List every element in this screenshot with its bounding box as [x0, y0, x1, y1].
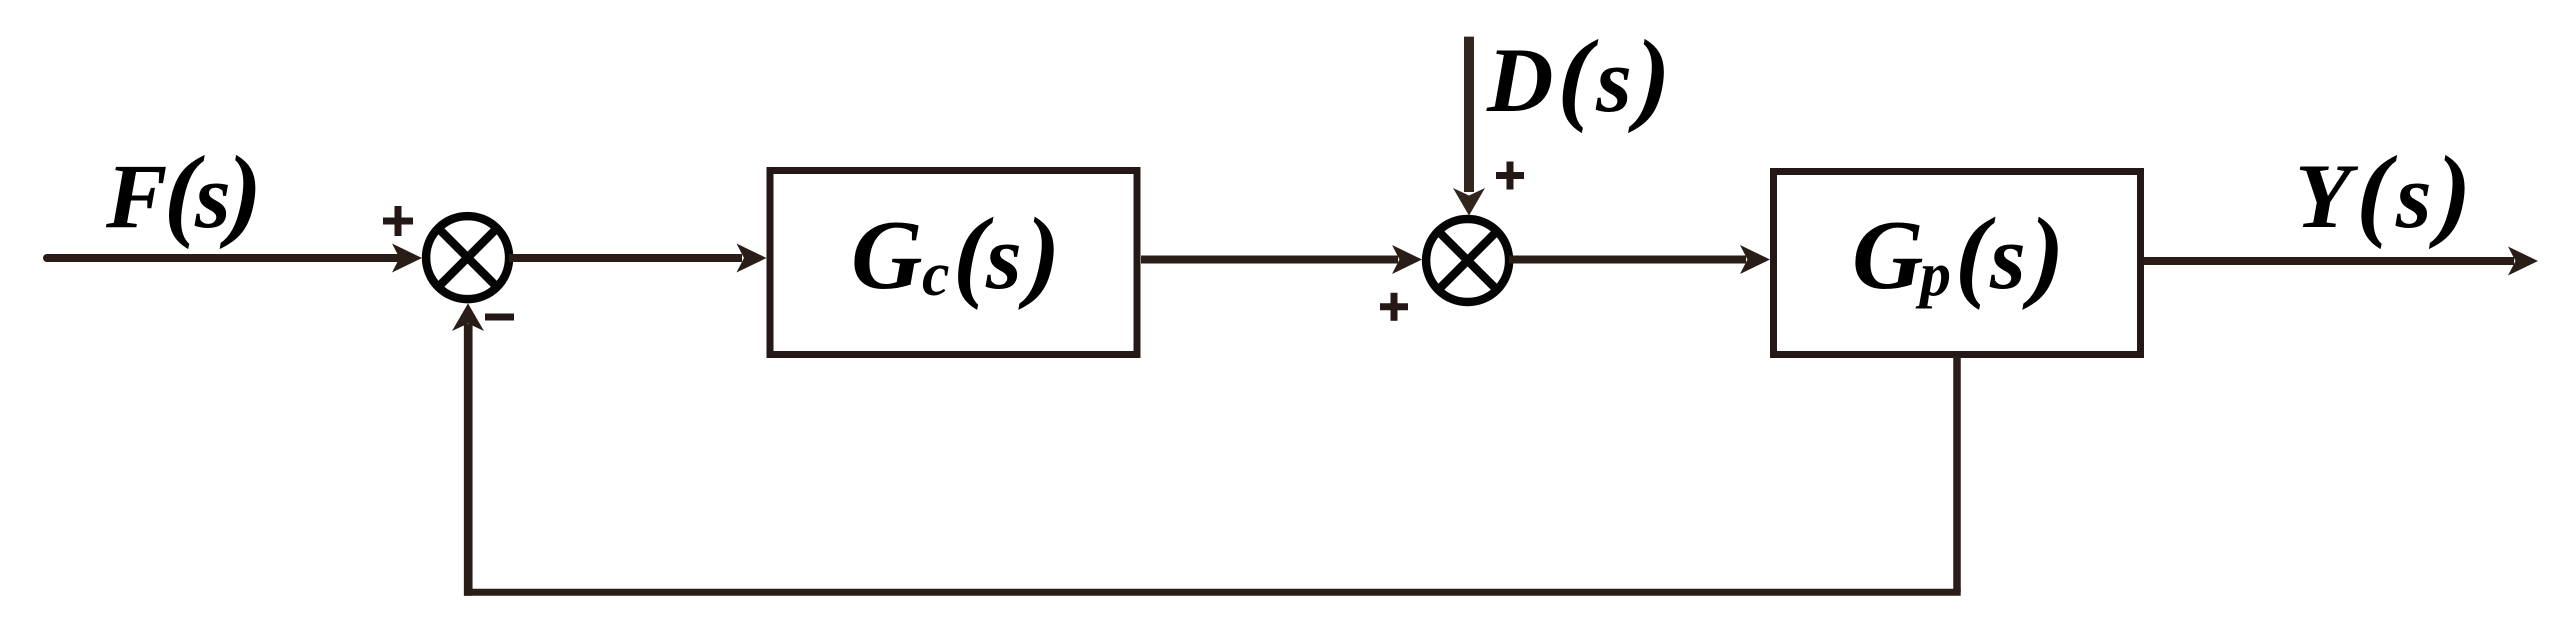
wire feedback up into S1: [452, 303, 484, 595]
plus sign at S2 forward input: [1380, 293, 1408, 321]
svg-text:c: c: [922, 241, 950, 309]
plus sign at S1 reference input: [383, 206, 413, 236]
wire feedback bottom run: [465, 589, 1961, 596]
plus sign at S2 disturbance input: [1496, 162, 1524, 190]
svg-text:Y(s): Y(s): [2295, 135, 2476, 250]
wire Gp output to Y(s): [2144, 247, 2538, 276]
svg-text:s: s: [985, 206, 1022, 308]
svg-text:p: p: [1915, 241, 1951, 309]
wire F(s) input into summing junction S1: [47, 244, 422, 273]
svg-text:F(s): F(s): [105, 135, 258, 250]
summing junction S2: [1426, 219, 1509, 302]
svg-text:D(s): D(s): [1486, 19, 1675, 134]
wire S1 to block Gc: [509, 244, 767, 273]
svg-text:G: G: [1852, 201, 1924, 310]
wire S2 to block Gp: [1509, 245, 1770, 274]
wire Gc to summing junction S2: [1141, 245, 1422, 274]
node Y(s) output label: [2295, 135, 2476, 250]
node D(s) disturbance label: [1486, 19, 1675, 134]
block Gc(s) controller: [770, 171, 1137, 355]
label Gc(s): [851, 197, 1060, 311]
wire D(s) down into S2: [1453, 37, 1485, 216]
minus sign at S1 feedback input: [485, 314, 514, 321]
wire feedback drop from Gp bottom: [1953, 356, 1961, 592]
summing junction S1: [426, 216, 509, 299]
svg-text:G: G: [851, 201, 923, 310]
block Gp(s) plant: [1774, 172, 2141, 355]
svg-text:s: s: [1989, 206, 2026, 308]
node F(s) input label: [105, 135, 258, 250]
label Gp(s): [1852, 197, 2064, 311]
